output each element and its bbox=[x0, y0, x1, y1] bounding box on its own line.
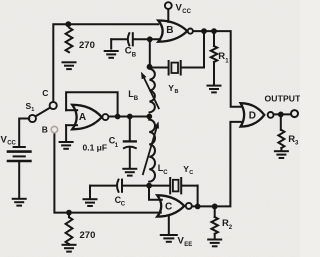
svg-text:Y: Y bbox=[168, 83, 174, 93]
svg-text:C: C bbox=[163, 170, 168, 176]
svg-text:C: C bbox=[121, 202, 126, 208]
svg-text:1: 1 bbox=[31, 107, 34, 113]
svg-text:C: C bbox=[125, 46, 132, 57]
svg-text:270: 270 bbox=[80, 230, 96, 241]
svg-text:B: B bbox=[42, 124, 48, 134]
svg-text:C: C bbox=[165, 201, 172, 212]
svg-text:270: 270 bbox=[79, 40, 95, 51]
svg-text:CC: CC bbox=[7, 141, 16, 147]
svg-text:C: C bbox=[189, 170, 193, 176]
svg-text:B: B bbox=[175, 89, 179, 95]
svg-text:B: B bbox=[134, 96, 139, 102]
svg-text:A: A bbox=[79, 112, 86, 123]
svg-text:R: R bbox=[218, 51, 225, 62]
svg-text:D: D bbox=[249, 111, 256, 122]
svg-text:C: C bbox=[42, 88, 48, 98]
svg-text:EE: EE bbox=[184, 242, 192, 248]
svg-text:0.1 μF: 0.1 μF bbox=[83, 143, 108, 153]
svg-text:B: B bbox=[166, 25, 173, 36]
svg-text:CC: CC bbox=[182, 9, 191, 15]
svg-text:B: B bbox=[132, 53, 137, 59]
svg-text:OUTPUT: OUTPUT bbox=[265, 94, 301, 104]
